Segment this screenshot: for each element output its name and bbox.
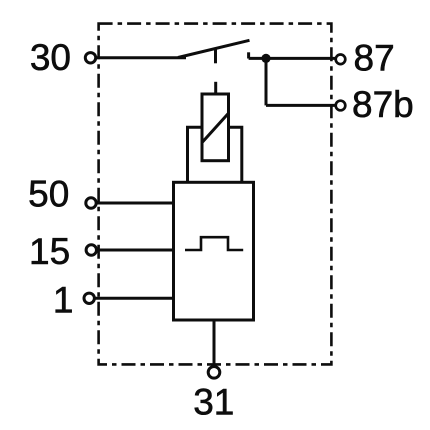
switch blade S1 bbox=[178, 40, 250, 57]
svg-text:50: 50 bbox=[28, 173, 69, 214]
wire fixed contact to terminal 87 bbox=[249, 57, 336, 60]
terminal 50 circle bbox=[86, 198, 96, 208]
wire control unit to terminal 31 bbox=[213, 320, 216, 366]
control unit inner box bbox=[188, 127, 242, 182]
svg-text:87b: 87b bbox=[352, 84, 414, 125]
svg-text:30: 30 bbox=[30, 37, 71, 78]
junction dot node 87 bbox=[261, 54, 270, 63]
terminal 1 circle bbox=[84, 293, 94, 303]
switch actuator link lower dash (coil top lead) bbox=[214, 82, 217, 96]
relay coil K1 body bbox=[202, 94, 229, 161]
wire terminal 15 to control unit bbox=[97, 249, 174, 252]
svg-text:15: 15 bbox=[29, 231, 70, 272]
switch fixed contact tick bbox=[247, 52, 250, 58]
switch actuator link upper dash bbox=[214, 49, 217, 63]
svg-text:31: 31 bbox=[193, 382, 234, 423]
terminal 87 circle bbox=[336, 55, 346, 65]
relay enclosure border (dash-dot) bbox=[99, 24, 332, 365]
wire terminal 50 to control unit bbox=[97, 202, 174, 205]
wire to terminal 87b bbox=[266, 104, 336, 107]
relay coil K1 diagonal bbox=[203, 113, 229, 142]
svg-text:1: 1 bbox=[53, 280, 74, 321]
wire junction down bbox=[265, 58, 268, 105]
terminal 15 circle bbox=[86, 245, 96, 255]
control unit outer box U1 bbox=[174, 182, 254, 320]
wire terminal 1 to control unit bbox=[95, 297, 174, 300]
terminal 31 circle bbox=[208, 367, 220, 379]
svg-text:87: 87 bbox=[354, 38, 395, 79]
terminal 87b circle bbox=[336, 101, 346, 111]
terminal 30 circle bbox=[85, 53, 95, 63]
pulse (timer) symbol bbox=[185, 237, 243, 250]
wire terminal 30 to switch bbox=[96, 56, 187, 59]
